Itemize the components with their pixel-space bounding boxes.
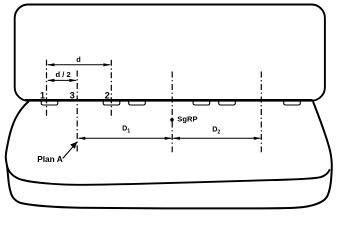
svg-text:D1: D1 (122, 123, 130, 134)
seat cushion front seam line (7, 166, 330, 185)
seat back bottom line (25, 99, 313, 101)
right centerline (dash-dot vertical) (260, 72, 262, 153)
svg-text:1: 1 (40, 90, 45, 100)
seat tab bump C (129, 101, 146, 105)
svg-text:SgRP: SgRP (177, 114, 197, 123)
seat back outline (15, 5, 325, 101)
seat cushion outer outline (6, 101, 332, 208)
seat tab bump F (284, 101, 301, 105)
svg-text:d: d (76, 55, 81, 64)
centerline 3 (dash-dot vertical) (76, 71, 78, 152)
Plan A leader arrow (63, 142, 78, 159)
svg-text:d / 2: d / 2 (55, 70, 70, 79)
seat tab bump D (193, 101, 210, 105)
svg-text:2: 2 (105, 90, 110, 100)
seat tab bump A (41, 101, 58, 105)
centerline 2 (dash-dot vertical) (110, 60, 112, 119)
dimension line D2 (172, 137, 261, 140)
seat tab bump E (219, 101, 236, 105)
svg-text:D2: D2 (212, 124, 220, 135)
svg-text:Plan A: Plan A (37, 154, 63, 164)
SgRP centerline (dash-dot vertical) (171, 72, 173, 153)
centerline 1 (dash-dot vertical) (46, 60, 48, 119)
SgRP point (170, 118, 174, 122)
seat tab bump B (103, 101, 120, 105)
dimension line d (47, 63, 111, 66)
dimension line D1 (78, 137, 172, 140)
dimension line d/2 (47, 79, 77, 82)
svg-text:3: 3 (70, 90, 75, 100)
